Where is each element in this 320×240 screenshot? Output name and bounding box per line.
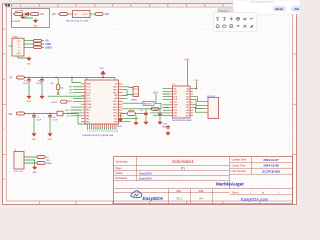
svg-text:PB11: PB11 [113,113,117,115]
junction rail1 d [71,77,72,78]
U2 right pin names [185,88,190,117]
svg-text:JLCPCB-002: JLCPCB-002 [262,169,280,173]
svg-text:USBD-: USBD- [45,44,52,46]
svg-text:PWR_SW: PWR_SW [14,171,23,173]
wire pwr gnd [34,160,36,166]
capacitor C8 [48,114,52,119]
svg-text:GND: GND [32,172,37,174]
wire sw1 left [123,113,128,115]
svg-text:5V: 5V [10,78,13,80]
resistor R10 [95,13,103,16]
junction rail2 a [33,113,34,114]
svg-text:3: 3 [91,131,92,133]
ground u2 [166,131,170,135]
svg-text:2024-12-07: 2024-12-07 [263,158,279,162]
resistor R11 [37,156,45,159]
svg-text:OA2: OA2 [186,112,189,115]
mcu U1 left pin names [86,83,92,124]
svg-text:BOOT: BOOT [52,102,58,104]
svg-text:VBAT: VBAT [86,83,92,86]
wire mcu right r pull [123,108,152,110]
svg-text:MS2: MS2 [174,94,178,96]
resistor R4 [151,107,159,110]
resistor R8 [61,100,68,103]
svg-text:+3V3: +3V3 [153,93,159,95]
svg-text:VDD: VDD [100,68,105,70]
svg-text:8MHz: 8MHz [132,100,137,102]
resistor R3 vertical [57,84,60,90]
svg-text:PWM: PWM [46,163,52,165]
toolbar icon row1 pos3 [230,17,233,20]
wire mcu right short a [123,96,139,122]
ground usb [27,57,31,61]
wire flag to fuse F1 [58,13,60,15]
svg-text:NRST: NRST [67,101,73,103]
U2 right pins [190,89,193,116]
title block bottom band lines [114,189,293,204]
svg-text:1: 1 [87,131,88,133]
toolbar icon row2 pos4 [237,25,240,27]
svg-text:MarbleAuger: MarbleAuger [216,182,244,187]
wire rail1 [25,77,116,79]
junction rail1 b [41,77,42,78]
svg-text:PA3: PA3 [86,117,89,120]
svg-text:PB2: PB2 [114,118,118,120]
junction c9 [145,113,146,114]
floating toolbar tab [218,8,234,13]
wire branch down [23,14,34,18]
svg-text:PB13: PB13 [113,107,118,109]
svg-text:FU-232M: FU-232M [11,21,20,23]
svg-text:Drawn: Drawn [116,171,124,175]
title block horizontal lines left section [114,166,230,181]
capacitor C11 [21,15,25,20]
ground nrst [119,118,123,122]
wire to regulator [68,13,73,15]
wire usb vcc [24,40,34,42]
svg-text:GND: GND [32,139,37,141]
resistor R6 [34,43,42,46]
svg-text:GND: GND [17,53,22,55]
wire sw1 right [136,113,141,115]
svg-text:TMC2208/2209-UART: TMC2208/2209-UART [172,119,193,122]
power input sub-sheet box [12,9,50,28]
svg-text:ensed high-quality content: ensed high-quality content [250,1,275,4]
title block right section lines [230,157,293,175]
svg-text:Update Time: Update Time [232,158,247,162]
svg-text:MS1: MS1 [174,91,178,93]
ground c10 [158,120,162,124]
wire C7 gnd [33,119,35,133]
wire R3 down [57,90,59,93]
svg-text:15: 15 [116,131,118,133]
fuse F3 [15,13,23,16]
svg-text:P1: P1 [181,167,185,171]
title block mid divider [229,157,231,189]
wire key row [48,95,88,97]
svg-text:C9: C9 [140,110,142,112]
svg-text:C10: C10 [154,110,157,112]
resistor R7 [34,46,42,49]
svg-text:0.1uF: 0.1uF [36,83,42,85]
svg-text:GND: GND [33,25,38,27]
svg-text:EasyEDA: EasyEDA [139,171,152,175]
svg-text:+5V: +5V [45,41,50,43]
wire R4 up [155,103,161,109]
ground C4 [27,95,31,99]
popup button Block [273,6,287,12]
svg-text:8: 8 [101,131,102,133]
svg-text:0.1uF: 0.1uF [53,120,59,122]
svg-text:NRST: NRST [86,101,92,103]
svg-text:PA12: PA12 [113,86,117,89]
svg-text:PLD: PLD [46,160,51,162]
svg-text:PD0: PD0 [86,95,90,97]
toolbar icon row1 pos1 [216,18,219,21]
wire into fuse [13,13,15,15]
svg-text:PB12: PB12 [113,110,118,112]
power flag arrow mcu top [101,71,105,78]
svg-text:OB2: OB2 [186,105,189,107]
svg-text:OA1: OA1 [186,95,189,98]
diode D4 on rail2 [57,111,63,116]
ground C8 [48,132,52,136]
svg-text:PA4: PA4 [86,120,89,123]
EasyEDA logo cloud [131,191,142,198]
ground in power box [34,19,38,23]
svg-text:PA0: PA0 [86,109,89,112]
svg-text:VSSA: VSSA [86,103,92,106]
svg-text:2: 2 [89,131,90,133]
junction vdd [102,77,104,79]
toolbar icon row2 pos6 [250,25,253,28]
svg-text:EasyEDA.com: EasyEDA.com [241,197,269,202]
frame zone ticks left [3,54,7,154]
frame zone ticks bottom [39,201,260,205]
svg-text:GND: GND [27,63,32,65]
capacitor C12 u2 [166,125,170,130]
capacitor C6 [40,78,44,83]
connector USB1 body [12,38,24,56]
wires mcu right to crystal [123,87,134,95]
svg-text:Block: Block [276,7,284,11]
ferrite FB1 [17,76,25,79]
resistor R5 [34,39,42,42]
frame zone ticks right [293,54,297,154]
ground pwr [33,165,37,169]
button SW1 [127,110,136,115]
svg-text:3V3: 3V3 [105,13,110,16]
svg-text:PB15: PB15 [113,101,118,103]
frame outer border [3,4,297,205]
wires U2 to J2 [193,97,205,113]
ground sw [134,121,138,125]
wire mcu right boot [123,102,144,104]
wires U2 left [150,89,170,116]
svg-text:V0.1: V0.1 [176,196,183,200]
svg-text:5: 5 [95,131,96,133]
svg-text:Create Time: Create Time [232,163,247,167]
svg-text:UM_LM_L062_TO_3V3: UM_LM_L062_TO_3V3 [66,20,89,22]
svg-text:EasyEDA: EasyEDA [143,196,163,201]
svg-text:NRST: NRST [117,126,123,128]
netlabel BOOT0 [143,101,154,105]
svg-text:2024-12-08: 2024-12-08 [263,164,279,168]
title block vertical divider label col [136,157,138,181]
svg-text:10k: 10k [60,87,63,89]
svg-text:SIZE: SIZE [198,191,204,193]
mcu U1 right pins [119,84,123,122]
svg-text:Schematic: Schematic [116,160,129,164]
frame inner border [6,7,292,201]
svg-text:OB1: OB1 [186,107,189,109]
svg-text:EasyEDA: EasyEDA [139,176,152,180]
svg-text:Part Number: Part Number [232,169,247,173]
toolbar icon row2 pos2 [223,25,226,28]
wire c9 c10 tie [141,109,161,114]
ground c9 [144,120,148,124]
title block outline [114,157,293,204]
mcu U1 left pins [81,84,85,122]
svg-text:OB2: OB2 [186,91,189,93]
svg-text:OA1: OA1 [186,109,189,112]
capacitor C10 [158,112,162,117]
regulator U3 [73,11,91,18]
net names mcu left [65,87,73,118]
svg-text:STM32F103C8T6 LQFP48 U1A: STM32F103C8T6 LQFP48 U1A [82,134,114,137]
usb shield pin [9,45,13,47]
resistor R9 [31,13,39,16]
svg-text:OA2: OA2 [186,98,189,101]
wire usb gnd [18,56,29,58]
stepper driver U2 body [173,86,191,118]
canvas corner label [5,4,12,6]
svg-text:PA8: PA8 [114,97,117,100]
wire fuse to diode node [23,13,31,15]
mcu U1 bottom pins [88,124,117,128]
svg-text:GND: GND [27,101,32,103]
wire usb d+ [24,46,34,48]
connector PWR body [14,152,24,170]
svg-text:+3V3: +3V3 [184,60,190,62]
svg-text:7: 7 [99,131,100,133]
svg-text:PC13: PC13 [86,87,91,89]
svg-text:BOOT0: BOOT0 [144,103,152,105]
wire caps to gnd [29,83,42,95]
mcu bottom pin labels [87,131,118,133]
capacitor C9 [144,112,148,117]
wire rail2 up to mcu bottom [78,114,88,125]
small grey ui blob [15,10,18,12]
svg-text:A4: A4 [199,196,203,200]
svg-text:4: 4 [93,131,94,133]
svg-text:REV: REV [177,191,182,193]
svg-text:PA9: PA9 [114,94,117,97]
wire 3v3 U2 [187,61,189,71]
toolbar icon row2 pos5 [243,25,246,28]
PWR pins wires [24,157,37,163]
svg-text:D+: D+ [18,47,20,49]
svg-text:GND: GND [48,139,53,141]
wire sw gnd [135,115,137,121]
svg-text:PA11: PA11 [113,88,117,91]
wire rail1 drop to mcu [72,78,115,83]
svg-text:USBD+: USBD+ [45,47,53,49]
wire R6 out [42,43,45,45]
svg-text:PB10: PB10 [113,116,118,118]
wire regulator out [90,13,95,15]
svg-text:PC15: PC15 [86,92,91,94]
junction rail1 a [28,77,29,78]
J2 pins [205,101,209,112]
svg-text:+5V: +5V [40,13,45,16]
wire usb d- [24,43,34,45]
svg-text:Floating To: Floating To [219,9,230,12]
browser notification popup [233,0,300,14]
mcu U1 body [85,80,119,124]
toolbar icon row1 pos2 [223,18,226,21]
capacitor C4 [27,78,31,83]
motor connector J2 body [208,98,219,119]
wire rail1 drop R3 [57,78,59,85]
ground C7 [32,132,36,136]
svg-text:OSC: OSC [68,93,73,95]
frame zone ticks top [39,4,260,7]
svg-text:6: 6 [97,131,98,133]
svg-text:PB1: PB1 [114,121,118,123]
toolbar icon row1 pos4 [237,17,240,20]
svg-text:10uF: 10uF [23,83,28,85]
capacitor C7 [32,114,36,119]
toolbar icon row1 pos6 [250,18,253,19]
svg-text:PB14: PB14 [113,104,118,106]
svg-text:Page: Page [116,166,123,170]
wire 3v3 mid drop [155,94,156,103]
svg-text:10uF: 10uF [37,120,42,122]
wire R5 out [42,40,45,42]
svg-text:LED: LED [69,90,73,92]
svg-text:PA10: PA10 [113,91,117,94]
svg-text:VIN: VIN [9,114,13,116]
svg-text:PA1: PA1 [86,112,89,115]
wires mcu left nets [71,87,81,116]
no-connect cross [57,92,60,95]
junction rail2 b [49,113,50,114]
toolbar icon row2 pos1 [216,25,219,28]
wire vm down [188,71,197,89]
toolbar icon row2 pos3 [230,25,233,28]
svg-text:OB1: OB1 [186,94,189,96]
popup button Allow [291,6,304,12]
wire C8 gnd [49,119,51,133]
svg-text:VDDA: VDDA [86,106,92,109]
wire R7 out [42,46,45,48]
mcu U1 bottom pads [88,128,117,130]
resistor R12 [37,162,45,165]
svg-text:Schematic1: Schematic1 [172,159,195,164]
junction rail1 c [55,77,56,78]
fuse F1 [60,13,68,16]
wire c9 gnd [145,116,147,121]
svg-text:of: of [262,191,264,194]
ground C6 [40,95,44,99]
diode D2 [26,12,29,15]
mcu U1 right pin names [113,84,118,124]
wire c10 gnd [159,116,161,121]
crystal Y1 [133,87,139,97]
toolbar icon row1 pos5 [243,18,246,20]
floating toolbar panel [214,13,258,32]
svg-text:PC14: PC14 [86,89,91,91]
svg-text:Reviewed: Reviewed [116,176,128,180]
junction vm [196,88,197,89]
wire nrst gnd drop [121,114,128,118]
svg-text:ADC1: ADC1 [65,109,70,112]
svg-text:+5V: +5V [52,13,57,16]
wire rail2 [25,113,79,115]
svg-text:PD1: PD1 [86,98,90,100]
svg-text:Allo: Allo [294,7,299,11]
svg-text:RX1: RX1 [67,116,71,118]
diode D3 [17,112,25,115]
U2 left pins [170,89,173,116]
svg-text:Sheet: Sheet [232,191,239,194]
svg-text:PA2: PA2 [86,115,89,118]
U2 left pin names [174,88,179,117]
